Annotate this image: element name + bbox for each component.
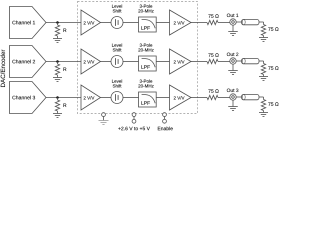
- low-pass filter LPF3 3-Pole 20-MHz: [140, 79, 153, 82]
- resistor 75 ohm series ch1: [208, 14, 218, 18]
- wire: [191, 97, 207, 99]
- channel 2 source pentagon: [10, 46, 47, 78]
- node junction ch1: [56, 21, 59, 24]
- wire: [191, 22, 207, 24]
- ground: [53, 77, 62, 79]
- level shift source LS3: [112, 79, 122, 82]
- ground: [232, 64, 234, 70]
- supply terminal +2.6 V to +5 V: [132, 113, 136, 117]
- wire: [156, 97, 169, 99]
- resistor R (channel 3 load): [57, 98, 59, 101]
- wire: [46, 97, 81, 99]
- wire: [101, 22, 112, 24]
- connector Out 1: [227, 14, 239, 17]
- wire: [259, 96, 264, 98]
- op-amp A1b 2 V/V: [170, 10, 192, 35]
- low-pass filter LPF2 3-Pole 20-MHz: [140, 43, 153, 46]
- power ground terminal: [102, 113, 106, 117]
- resistor R (channel 2 load): [57, 62, 59, 65]
- ground (power, grey): [99, 120, 109, 122]
- connector Out 2: [227, 53, 239, 56]
- wire: [259, 60, 264, 62]
- enable terminal: [163, 113, 167, 117]
- low-pass filter LPF1 3-Pole 20-MHz: [140, 4, 153, 7]
- dashed box (filter/amp IC boundary): [78, 2, 198, 114]
- ground: [259, 112, 268, 114]
- wire: [46, 22, 81, 24]
- wire: [156, 61, 169, 63]
- wire: [123, 97, 139, 99]
- wire: [218, 97, 230, 99]
- node junction ch2: [56, 60, 59, 63]
- op-amp A2a 2 V/V: [81, 49, 101, 74]
- level shift source LS2: [112, 43, 122, 46]
- op-amp A3a 2 V/V: [81, 85, 101, 110]
- wire: [259, 21, 264, 23]
- wire: [236, 21, 241, 23]
- ground: [53, 113, 62, 115]
- coax cable ch3: [242, 94, 260, 99]
- level shift source LS1: [112, 4, 122, 7]
- wire: [191, 61, 207, 63]
- op-amp A1a 2 V/V: [81, 10, 101, 35]
- resistor 75 ohm series ch3: [208, 89, 218, 93]
- wire: [218, 61, 230, 63]
- ground: [53, 38, 62, 40]
- wire: [218, 22, 230, 24]
- resistor R (channel 1 load): [57, 23, 59, 26]
- connector Out 3: [227, 89, 239, 92]
- wire: [123, 22, 139, 24]
- op-amp A2b 2 V/V: [170, 49, 192, 74]
- resistor 75 ohm termination ch3: [261, 100, 265, 111]
- ground: [232, 100, 234, 106]
- wire: [236, 96, 241, 98]
- wire: [156, 22, 169, 24]
- label DAC/Encoder: [1, 50, 6, 87]
- wire: [123, 61, 139, 63]
- ground: [259, 37, 268, 39]
- resistor 75 ohm series ch2: [208, 53, 218, 57]
- channel 1 source pentagon: [10, 7, 47, 39]
- wire: [101, 97, 112, 99]
- channel 3 source pentagon: [10, 82, 47, 114]
- coax cable ch2: [242, 58, 260, 63]
- wire: [101, 61, 112, 63]
- wire: [46, 61, 81, 63]
- ground: [232, 25, 234, 31]
- coax cable ch1: [242, 19, 260, 24]
- wire: [236, 60, 241, 62]
- resistor 75 ohm termination ch2: [261, 64, 265, 75]
- node junction ch3: [56, 96, 59, 99]
- resistor 75 ohm termination ch1: [261, 25, 265, 36]
- op-amp A3b 2 V/V: [170, 85, 192, 110]
- ground: [259, 76, 268, 78]
